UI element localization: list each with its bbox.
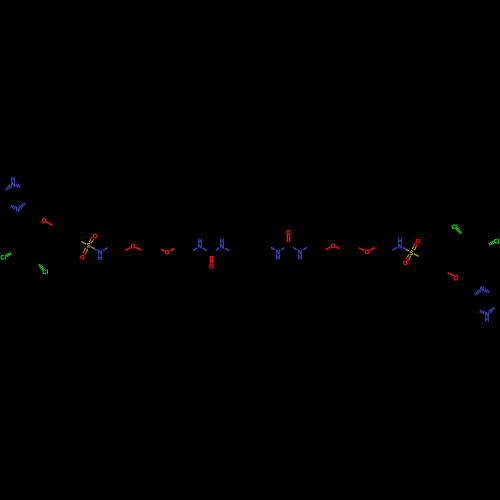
bond CH2-O2 (left PEG) (161, 249, 165, 251)
bond CH2-O1 (left PEG) (125, 248, 130, 251)
bond CH2-N (urea1 left) (193, 248, 197, 250)
bond C(aryl)-S (left) (81, 242, 86, 245)
bond N-C (urea1 left) (203, 248, 207, 251)
bond Cl-C hashed (right outer) [mirrored] (492, 241, 494, 244)
bond S1-N (sulfonamide right) [mirrored] (406, 249, 409, 251)
bond Cl-C hashed (left outer) (6, 254, 8, 257)
bond O-C(aryl) (left ether) (46, 222, 52, 226)
svg-text:N: N (220, 245, 224, 251)
bond O-C(aryl) (right ether) [mirrored] (448, 273, 454, 277)
bond C(aryl)-S (right) [mirrored] (414, 254, 419, 257)
svg-text:O: O (331, 244, 336, 250)
bond N4-C5 hashed (ring A) (14, 206, 16, 209)
bond CH2-O2 (right PEG) [mirrored] (336, 247, 340, 249)
svg-text:O: O (42, 218, 47, 224)
bond N-C (urea1 right) [mirrored] (293, 247, 297, 250)
svg-text:N: N (276, 250, 280, 256)
svg-text:Cl: Cl (494, 239, 500, 245)
svg-text:N: N (298, 250, 302, 256)
bond N1-C2 hashed (ring A) (16, 184, 17, 187)
bond N1-C6 hashed (ring A) [mirrored] (489, 310, 491, 313)
svg-text:O: O (403, 261, 408, 267)
svg-text:N: N (16, 208, 20, 214)
bond N-CH2 (left sulfonamide) (103, 248, 108, 251)
svg-text:O: O (286, 230, 291, 236)
double bond C=O (urea1) (209, 256, 211, 260)
bond Cl-C hashed (left inner) (41, 268, 44, 270)
bond O-CH2 stub (right ether) [mirrored] (455, 274, 458, 275)
svg-text:H: H (298, 256, 302, 262)
svg-text:H: H (398, 239, 402, 245)
bond C-N (urea1 right) (216, 248, 219, 250)
svg-text:N: N (485, 312, 489, 318)
svg-text:O: O (92, 234, 97, 240)
bond N4-C5 hashed (ring A) [mirrored] (485, 289, 487, 292)
bond O2-CH2 (right PEG) [mirrored] (326, 247, 331, 250)
bond O2-CH2 (left PEG) (170, 248, 175, 251)
svg-text:O: O (165, 251, 170, 257)
double bond S1=O (lower) (84, 248, 85, 251)
bond O-CH2 stub (left ether) (42, 222, 45, 223)
double bond S1=O (upper) (91, 241, 93, 243)
bond CH2-O1 (right PEG) [mirrored] (370, 248, 375, 251)
svg-text:O: O (131, 245, 136, 251)
svg-text:O: O (454, 277, 459, 283)
svg-text:H: H (98, 256, 102, 262)
bond O1-CH2 (right PEG) [mirrored] (359, 248, 364, 251)
svg-text:N: N (398, 244, 402, 250)
bond C-N (urea1 left) [mirrored] (281, 248, 284, 250)
svg-text:O: O (415, 239, 420, 245)
svg-text:Cl: Cl (0, 256, 6, 262)
bond O1-CH2 (left PEG) (136, 248, 141, 251)
double bond C=O (urea1) [mirrored] (289, 238, 291, 242)
svg-text:N: N (11, 183, 15, 189)
bond N4-C3 hashed (ring A) (19, 206, 21, 209)
svg-text:H: H (276, 256, 280, 262)
bond CH2-N (urea1 right) [mirrored] (303, 248, 307, 250)
bond N-CH2 (urea1 left) [mirrored] (271, 247, 275, 250)
svg-text:O: O (365, 250, 370, 256)
bond N-CH2 (right sulfonamide) [mirrored] (392, 248, 397, 251)
bond S1-N (sulfonamide left) (91, 247, 94, 249)
svg-text:Cl: Cl (42, 270, 48, 276)
bond Cl-C hashed (right inner) [mirrored] (456, 228, 459, 230)
double bond S1=O (lower) [mirrored] (415, 247, 416, 250)
svg-text:O: O (209, 265, 214, 271)
bond N-CH2 (urea1 right) (225, 248, 229, 251)
svg-text:N: N (198, 245, 202, 251)
bond N1-C2 hashed (ring A) [mirrored] (483, 311, 484, 314)
svg-text:O: O (80, 256, 85, 262)
bond N1-C6 hashed (ring A) (9, 185, 11, 188)
double bond S1=O (upper) [mirrored] (407, 255, 409, 257)
bond N4-C3 hashed (ring A) [mirrored] (478, 290, 480, 293)
